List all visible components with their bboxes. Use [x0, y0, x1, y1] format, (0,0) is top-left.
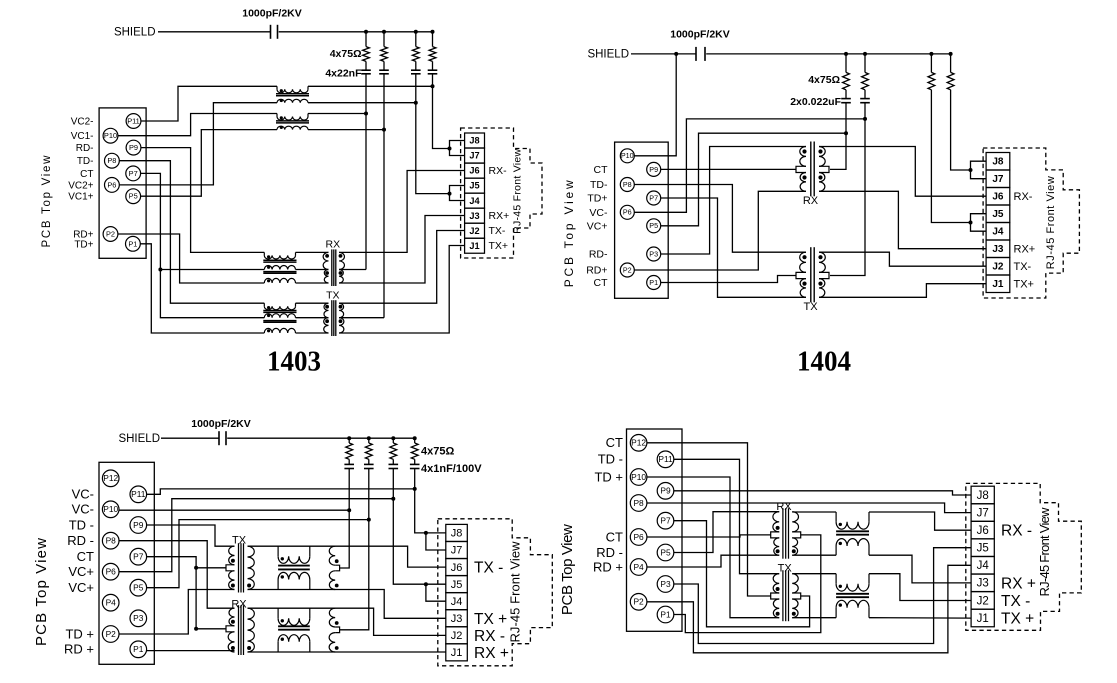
wire P9 to J8 (bottom-right) [674, 491, 971, 495]
pin P11 (bottom-right) [657, 451, 674, 468]
PCB connector box (bottom-left) [99, 462, 154, 664]
svg-text:J6: J6 [992, 192, 1004, 203]
wire RX top rail to J6 (bottom-right) [792, 511, 836, 513]
svg-text:PCB Top View: PCB Top View [559, 524, 576, 615]
svg-text:J8: J8 [469, 136, 479, 146]
svg-text:P6: P6 [633, 532, 644, 542]
svg-text:J4: J4 [992, 227, 1004, 238]
svg-text:1404: 1404 [797, 347, 851, 378]
wire P1 to TX choke bottom [140, 244, 264, 333]
svg-text:TD +: TD + [65, 626, 94, 641]
pin P10 (1404) [620, 149, 634, 163]
wire RX top rail to J2 (bottom-left) [248, 608, 446, 635]
junction dots shield bus (1404) [674, 52, 678, 56]
svg-text:P10: P10 [631, 472, 646, 482]
choke lower winding [277, 642, 279, 652]
svg-text:J7: J7 [451, 545, 463, 557]
wire P11 to choke A top [141, 86, 277, 121]
svg-text:VC1-: VC1- [71, 131, 94, 142]
choke upper winding [835, 574, 837, 584]
svg-text:RX: RX [803, 195, 819, 207]
svg-text:P6: P6 [107, 180, 116, 189]
pin P2 (1403) [103, 227, 118, 242]
choke top winding [276, 86, 278, 89]
svg-text:P5: P5 [133, 583, 144, 593]
svg-text:P4: P4 [106, 598, 117, 608]
choke core a [263, 310, 296, 312]
svg-text:P2: P2 [623, 265, 632, 274]
RJ-45 connector cells J8-J1 (bottom-left) [446, 524, 468, 541]
wire P8 to RX transformer top (bottom-left) [119, 541, 235, 609]
choke core [276, 93, 309, 95]
choke lower winding [835, 546, 837, 555]
pin P1 (1403) [125, 236, 140, 251]
choke core b [263, 271, 296, 273]
wire TX bottom rail to J1 (bottom-right) [792, 617, 836, 619]
svg-text:RD -: RD - [67, 533, 94, 548]
wire RX transformer bottom to J3 [339, 216, 465, 284]
svg-text:P8: P8 [633, 498, 644, 508]
pin P1 (bottom-left) [130, 641, 147, 658]
wire RX choke to RX transformer (3 wires) [296, 251, 329, 253]
svg-text:J8: J8 [451, 528, 463, 540]
resistor 75ohm at x=414.7 (bottom-left) [414, 438, 416, 443]
PCB connector box (1403) [99, 108, 146, 258]
svg-text:CT: CT [594, 164, 609, 176]
pin P2 (bottom-right) [630, 594, 647, 611]
svg-text:P10: P10 [621, 151, 634, 160]
capacitor 1nF at x=414.7 (bottom-left) [414, 459, 416, 464]
pin P9 (1403) [126, 140, 141, 155]
wire P6 to RC3 (bottom-left) [119, 499, 393, 572]
svg-text:P12: P12 [103, 473, 118, 483]
svg-text:P9: P9 [649, 165, 658, 174]
svg-text:J7: J7 [977, 508, 989, 520]
svg-text:TX+: TX+ [1014, 279, 1034, 291]
svg-text:1000pF/2KV: 1000pF/2KV [670, 29, 730, 41]
svg-text:RX +: RX + [1001, 575, 1036, 592]
pin P6 (1403) [105, 178, 120, 193]
choke upper winding [277, 608, 279, 618]
wire pair bracket J8-J7 (1404) [971, 161, 987, 179]
svg-text:P7: P7 [133, 552, 144, 562]
wire P5 to RC1 (1404) [661, 133, 846, 226]
svg-text:1000pF/2KV: 1000pF/2KV [191, 418, 251, 430]
svg-text:P2: P2 [106, 629, 117, 639]
pin P4 (bottom-right) [630, 559, 647, 576]
wire branch J4 (bottom-left) [426, 584, 446, 601]
wire P7 CT to RX and TX choke mid [141, 173, 265, 317]
svg-text:CT: CT [606, 435, 623, 450]
pin P11 (1403) [126, 114, 141, 129]
RJ-45 dashed outline (1404) [983, 148, 1079, 298]
svg-text:RD +: RD + [593, 559, 623, 574]
wire P2 to J4 (bottom-right) [647, 565, 971, 653]
wire P7 CT bus (bottom-left) [147, 557, 197, 629]
choke core [278, 625, 310, 627]
svg-text:J4: J4 [469, 196, 480, 206]
RJ-45 connector cells J8-J1 (1403) [465, 133, 485, 148]
svg-text:J3: J3 [977, 578, 989, 590]
pin P11 (bottom-left) [130, 486, 147, 503]
wire choke A bottom to RC3 [308, 102, 416, 104]
pin P5 (1403) [126, 189, 141, 204]
svg-text:SHIELD: SHIELD [587, 49, 629, 61]
capacitor 0.022uF at x=865 (1404) [864, 90, 866, 99]
svg-text:P6: P6 [106, 567, 117, 577]
svg-text:CT: CT [606, 529, 623, 544]
wire P1 to RX transformer bottom (bottom-left) [147, 650, 235, 652]
pin P9 (bottom-left) [130, 517, 147, 534]
wire P2 to TX transformer bottom (bottom-left) [119, 590, 235, 635]
svg-text:P4: P4 [633, 562, 644, 572]
pin P7 (1403) [126, 166, 141, 181]
svg-text:TD-: TD- [590, 179, 608, 191]
R3 vertical to J5/J4 pair (1404) [931, 90, 970, 223]
svg-text:1403: 1403 [267, 347, 321, 378]
svg-text:P8: P8 [106, 536, 117, 546]
pin P9 (1404) [647, 162, 661, 176]
svg-text:4x1nF/100V: 4x1nF/100V [421, 463, 482, 475]
capacitor 22nF at x=415.8 (1403) [411, 69, 421, 71]
resistor 75ohm at x=366 (1403) [365, 32, 367, 47]
wire capacitor to resistor bus [279, 31, 433, 33]
capacitor 1nF at x=393.3 (bottom-left) [392, 459, 394, 464]
wire choke B top to RC1 [308, 113, 366, 115]
svg-text:RX +: RX + [474, 645, 509, 662]
pin P6 (1404) [620, 205, 634, 219]
pin P8 (1404) [620, 178, 634, 192]
wire P7 to TX right tap (bottom-right) [674, 521, 810, 627]
svg-text:J6: J6 [451, 562, 463, 574]
wire TX bottom rail to J3 (bottom-left) [248, 590, 446, 619]
pin P8 (1403) [105, 153, 120, 168]
svg-text:P3: P3 [649, 249, 658, 258]
wire P2 to RX choke bottom [118, 234, 264, 283]
svg-text:J7: J7 [469, 151, 479, 161]
choke winding 3 [264, 278, 295, 283]
capacitor 22nF at x=366 (1403) [361, 69, 371, 71]
pin P4 (bottom-left) [102, 594, 119, 611]
junction dots shield bus (bottom-left) [347, 436, 351, 440]
svg-text:J1: J1 [451, 647, 463, 659]
svg-text:SHIELD: SHIELD [114, 27, 156, 39]
svg-text:4x22nF: 4x22nF [325, 68, 362, 80]
wire TX top to J2 (1404) [819, 252, 986, 266]
wire P5 to RX top (bottom-right) [674, 512, 779, 553]
svg-text:VC1+: VC1+ [68, 192, 93, 203]
wire P3 to J5 (bottom-right) [674, 548, 971, 644]
wire P8 to TX choke top [119, 161, 264, 304]
svg-text:P6: P6 [623, 208, 632, 217]
svg-text:TD+: TD+ [74, 239, 93, 250]
wire RX top to J6 (1404) [819, 147, 986, 197]
wire TX transformer top to J2 [339, 231, 465, 304]
wire P6 to RX mid (bottom-right) [647, 535, 771, 537]
svg-text:P11: P11 [131, 489, 146, 499]
svg-text:TX: TX [326, 290, 339, 302]
svg-text:RJ-45 Front View: RJ-45 Front View [508, 541, 523, 643]
svg-text:4x75Ω: 4x75Ω [421, 446, 454, 458]
svg-text:J1: J1 [992, 279, 1004, 290]
resistor 75ohm at x=950.6 (1404) [950, 54, 952, 73]
resistor 75ohm at x=415.8 (1403) [415, 32, 417, 47]
svg-text:RX -: RX - [1001, 523, 1032, 540]
pin P12 (bottom-right) [630, 435, 647, 452]
svg-text:J6: J6 [977, 525, 989, 537]
svg-text:CT: CT [594, 277, 609, 289]
RC4 vertical to J8 J7 (bottom-left) [415, 469, 446, 533]
svg-text:J5: J5 [469, 181, 479, 191]
wire P5 to choke B bottom [141, 130, 277, 197]
pin P3 (1404) [647, 247, 661, 261]
wire P1 to RX right tap (bottom-right) [674, 535, 821, 633]
choke core [836, 593, 869, 595]
pin P5 (bottom-right) [657, 544, 674, 561]
pin P3 (bottom-right) [657, 576, 674, 593]
svg-text:PCB Top View: PCB Top View [41, 155, 53, 248]
wire P12 to TX mid (bottom-right) [647, 443, 771, 596]
svg-text:P9: P9 [133, 520, 144, 530]
svg-text:J2: J2 [992, 262, 1004, 273]
svg-text:VC2-: VC2- [71, 117, 94, 128]
svg-text:RX: RX [326, 239, 341, 251]
svg-text:J5: J5 [992, 209, 1004, 220]
pin P1 (1404) [647, 276, 661, 290]
wire capacitor to resistor bus (1404) [706, 53, 950, 55]
svg-text:TX: TX [803, 301, 818, 313]
svg-text:J3: J3 [451, 613, 463, 625]
wire P10 to SHIELD (1404) [634, 54, 676, 156]
wire RX transformer tap to RC1 [339, 269, 366, 271]
RJ-45 dashed outline (bottom-left) [438, 519, 553, 666]
svg-text:P5: P5 [660, 547, 671, 557]
capacitor 1nF at x=368.8 (bottom-left) [368, 459, 370, 464]
wire choke B bottom to RC2 [308, 129, 384, 131]
svg-text:J5: J5 [451, 579, 463, 591]
svg-text:4x75Ω: 4x75Ω [330, 48, 362, 60]
svg-text:RX-: RX- [489, 165, 508, 177]
svg-text:TX -: TX - [474, 560, 503, 577]
wire P2 to RX bottom (1404) [634, 191, 806, 270]
RC2 vertical to RX line winding tap (bottom-left) [340, 469, 369, 630]
svg-text:CT: CT [80, 169, 93, 180]
svg-text:TX+: TX+ [489, 240, 509, 252]
pin P2 (bottom-left) [102, 626, 119, 643]
svg-text:J4: J4 [977, 560, 990, 572]
svg-text:VC+: VC+ [68, 564, 94, 579]
choke upper winding [277, 546, 279, 556]
wire P9 to TX transformer top (bottom-left) [147, 525, 235, 546]
resistor 75ohm at x=393.3 (bottom-left) [392, 438, 394, 443]
pin P7 (bottom-right) [657, 512, 674, 529]
pin P7 (bottom-left) [130, 548, 147, 565]
svg-text:RX-: RX- [1014, 191, 1033, 203]
svg-text:TD-: TD- [77, 156, 94, 167]
svg-text:J6: J6 [469, 166, 479, 176]
wire choke A top to RC4 [308, 85, 433, 87]
wire SHIELD to capacitor (bottom-left) [161, 437, 219, 439]
PCB connector box (1404) [615, 142, 669, 298]
choke winding 1 [263, 303, 265, 306]
wire P6 to RC2 (1404) [634, 119, 865, 212]
wire P10 to RC1 (bottom-left) [119, 509, 349, 511]
pin P10 (bottom-left) [102, 501, 119, 518]
svg-text:4x75Ω: 4x75Ω [808, 74, 840, 86]
pin P8 (bottom-right) [630, 495, 647, 512]
svg-text:TX-: TX- [1014, 261, 1032, 273]
capacitor 22nF at x=432.5 (1403) [428, 69, 438, 71]
RC net vertical RC2 (1403) [383, 74, 385, 318]
RJ-45 dashed outline (1403) [461, 128, 542, 258]
resistor 75ohm at x=865 (1404) [864, 54, 866, 73]
svg-text:P7: P7 [649, 193, 658, 202]
svg-text:P8: P8 [107, 156, 116, 165]
choke winding 3 [264, 328, 295, 333]
wire RX bottom rail to J1 (bottom-left) [248, 651, 446, 653]
wire TX transformer bottom to J1 [339, 246, 465, 334]
svg-text:P1: P1 [133, 644, 144, 654]
choke winding 2 [264, 266, 295, 270]
wire TX choke to TX transformer (3 wires) [296, 302, 329, 304]
RJ-45 connector cells J8-J1 (1404) [986, 153, 1010, 171]
choke core [836, 530, 869, 532]
svg-text:RX -: RX - [474, 628, 505, 645]
pin P12 (bottom-left) [102, 470, 119, 487]
pin P5 (1404) [647, 219, 661, 233]
svg-text:J8: J8 [977, 490, 989, 502]
svg-text:P2: P2 [106, 230, 115, 239]
RC2 vertical to TX tap (1404) [830, 103, 865, 276]
svg-text:RX+: RX+ [1014, 244, 1036, 256]
svg-text:J5: J5 [977, 543, 989, 555]
svg-text:P1: P1 [660, 609, 671, 619]
svg-text:VC-: VC- [72, 502, 94, 517]
choke core [278, 565, 310, 567]
junction dots on shield bus (1403) [364, 30, 368, 34]
wire TX bottom to J1 (1404) [819, 284, 986, 298]
svg-text:J4: J4 [451, 596, 463, 608]
resistor 75ohm at x=368.8 (bottom-left) [368, 438, 370, 443]
svg-text:P11: P11 [127, 117, 140, 126]
svg-text:P8: P8 [623, 180, 632, 189]
svg-text:TX -: TX - [1001, 593, 1030, 610]
pin P7 (1404) [647, 191, 661, 205]
wire TX transformer tap to RC2 [339, 317, 384, 319]
choke lower winding [835, 608, 837, 618]
pin P6 (bottom-left) [102, 563, 119, 580]
svg-text:P2: P2 [633, 597, 644, 607]
svg-text:TD -: TD - [598, 452, 623, 467]
capacitor 1nF at x=349.2 (bottom-left) [348, 459, 350, 464]
svg-text:VC-: VC- [72, 487, 94, 502]
wire P6 to choke A bottom [119, 103, 277, 185]
svg-text:J1: J1 [977, 613, 989, 625]
choke bottom winding [277, 99, 308, 102]
svg-text:P9: P9 [129, 143, 138, 152]
wire P8 to J7 (bottom-right) [647, 503, 971, 513]
svg-text:RD -: RD - [596, 545, 623, 560]
svg-text:1000pF/2KV: 1000pF/2KV [242, 8, 302, 20]
svg-text:TX: TX [778, 563, 793, 575]
wire P3 to RX top (1404) [661, 147, 806, 255]
choke winding 1 [263, 252, 265, 255]
svg-text:PCB Top View: PCB Top View [562, 180, 576, 287]
pin P9 (bottom-right) [657, 483, 674, 500]
choke winding 2 [264, 314, 295, 318]
svg-text:RD-: RD- [589, 249, 608, 261]
svg-text:J3: J3 [992, 244, 1004, 255]
pin P10 (bottom-right) [630, 469, 647, 486]
svg-text:P7: P7 [129, 169, 138, 178]
pin P1 (bottom-right) [657, 606, 674, 623]
svg-text:P10: P10 [104, 131, 117, 140]
wire CT branch to RX choke mid [160, 269, 264, 271]
wire SHIELD to capacitor (1404) [631, 53, 696, 55]
svg-text:P5: P5 [129, 192, 138, 201]
pin P3 (bottom-left) [130, 610, 147, 627]
wire P9 to RX choke top [141, 148, 264, 253]
wire P11 to RC4 (bottom-left) [147, 489, 415, 494]
resistor 75ohm at x=846 (1404) [845, 54, 847, 73]
svg-text:J7: J7 [992, 174, 1004, 185]
RC3 vertical to J5 J4 (bottom-left) [393, 469, 446, 585]
PCB connector box (bottom-right) [627, 429, 683, 631]
wire pair bracket J5-J4 (1404) [971, 214, 987, 232]
svg-text:RX+: RX+ [489, 210, 510, 222]
choke lower winding [277, 580, 279, 590]
svg-text:P3: P3 [133, 613, 144, 623]
svg-text:J3: J3 [469, 211, 479, 221]
svg-text:CT: CT [77, 549, 94, 564]
svg-text:J1: J1 [469, 241, 479, 251]
choke bottom winding [277, 126, 308, 129]
svg-text:J8: J8 [992, 157, 1004, 168]
svg-text:P3: P3 [660, 579, 671, 589]
wire capacitor to resistor bus (bottom-left) [227, 437, 415, 439]
RJ-45 dashed outline (bottom-right) [966, 483, 1082, 630]
svg-text:J2: J2 [977, 595, 989, 607]
wire P11 to TX top (bottom-right) [674, 459, 779, 573]
svg-text:RJ-45 Front View: RJ-45 Front View [512, 148, 524, 233]
wire branch J7 (bottom-left) [426, 533, 446, 550]
svg-text:PCB Top View: PCB Top View [33, 538, 50, 646]
RC1 vertical to RX tap (1404) [830, 103, 846, 170]
RC1 vertical to TX line winding tap (bottom-left) [340, 469, 350, 569]
resistor 75ohm at x=931.4 (1404) [930, 54, 932, 73]
RC net vertical RC1 (1403) [365, 74, 367, 270]
wire SHIELD to capacitor [158, 31, 271, 33]
RC net vertical RC4 (1403) to J8/J7 pair [433, 74, 450, 149]
svg-text:VC+: VC+ [68, 580, 94, 595]
wire P5 to RC2 (bottom-left) [147, 520, 369, 588]
svg-text:P1: P1 [128, 239, 137, 248]
choke core a [263, 259, 296, 261]
pin P10 (1403) [103, 128, 118, 143]
wire P8 to TX top (1404) [634, 185, 806, 253]
svg-text:TD -: TD - [69, 517, 94, 532]
wire P10 to choke B top [118, 114, 277, 136]
choke core [276, 120, 309, 122]
svg-text:J2: J2 [469, 226, 479, 236]
pin P5 (bottom-left) [130, 579, 147, 596]
wire pair bracket J5-J4 (1403) [450, 186, 465, 201]
wire CT to TX tap (bottom-left) [196, 567, 226, 569]
svg-text:VC+: VC+ [587, 220, 608, 232]
svg-text:VC-: VC- [589, 207, 608, 219]
wire P9 to RX left tap (1404) [661, 168, 796, 170]
RJ-45 connector cells J8-J1 (bottom-right) [971, 486, 994, 504]
